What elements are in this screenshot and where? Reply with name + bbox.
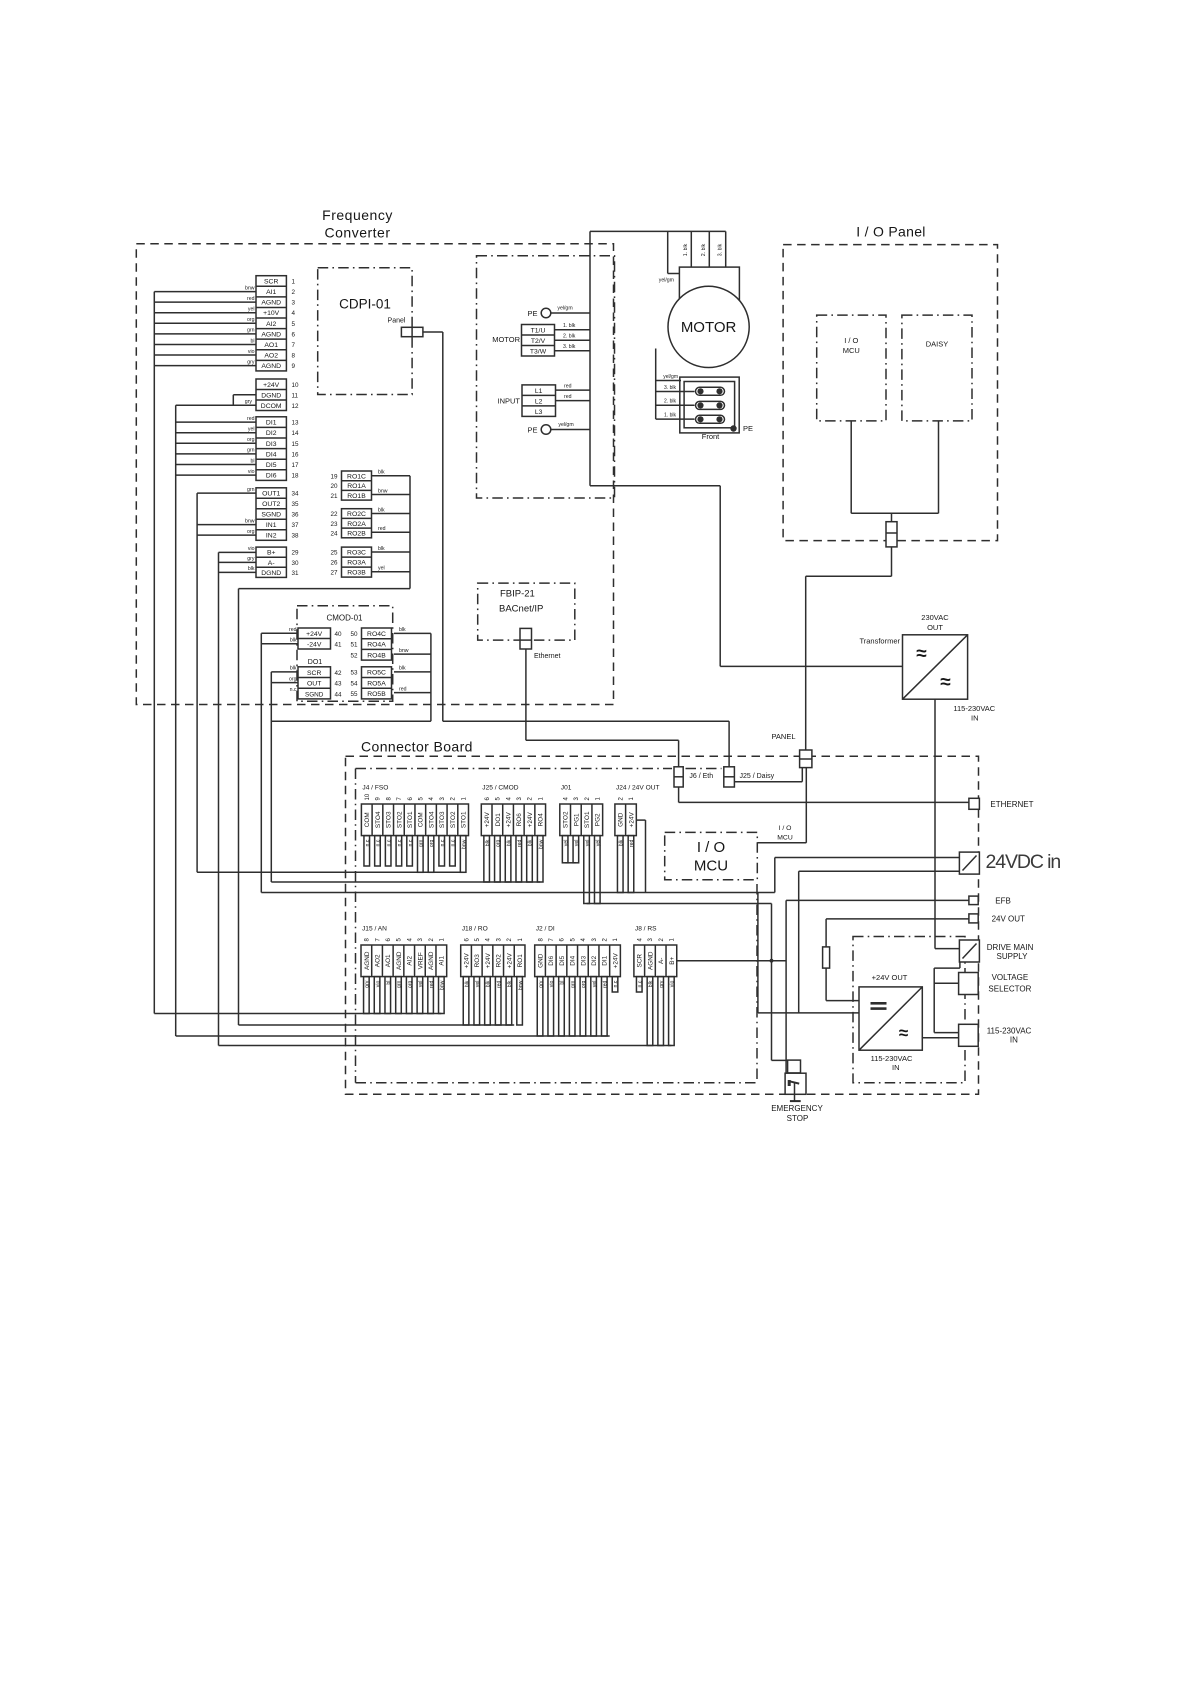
relay output block RO5 pins 53-55 (RO5C RO5A RO5B) xyxy=(350,667,391,699)
CMOD-01 DO1 label xyxy=(308,659,323,666)
svg-text:+24V: +24V xyxy=(505,812,512,828)
svg-text:MOTOR: MOTOR xyxy=(492,335,520,344)
svg-text:bnw: bnw xyxy=(245,518,255,524)
svg-text:B+: B+ xyxy=(669,957,676,965)
wire DGND-DCOM jumper and bus to J2/DI xyxy=(176,395,256,406)
svg-text:PE: PE xyxy=(527,426,537,435)
FBIP-21 BACnet/IP fieldbus adapter module xyxy=(478,583,575,640)
svg-text:12: 12 xyxy=(292,403,300,410)
svg-text:11: 11 xyxy=(292,392,299,399)
svg-text:BACnet/IP: BACnet/IP xyxy=(499,604,543,615)
svg-text:AGND: AGND xyxy=(261,331,281,338)
svg-text:SELECTOR: SELECTOR xyxy=(988,984,1031,993)
svg-text:115-230VAC: 115-230VAC xyxy=(871,1054,913,1063)
svg-text:43: 43 xyxy=(335,681,343,688)
svg-text:n.c: n.c xyxy=(290,687,297,693)
svg-text:yel/gm: yel/gm xyxy=(663,374,678,380)
svg-text:bl: bl xyxy=(250,458,254,464)
svg-text:gry: gry xyxy=(247,359,255,365)
svg-text:n.c: n.c xyxy=(376,839,382,846)
svg-text:1. blk: 1. blk xyxy=(563,323,576,329)
CMOD-01 multifunction extension module (dash-dot box) xyxy=(297,606,393,702)
wires: motor phases to cable riser xyxy=(555,323,591,351)
svg-text:MCU: MCU xyxy=(694,858,728,875)
title Frequency Converter xyxy=(322,207,393,241)
svg-text:≈: ≈ xyxy=(940,672,951,693)
ground symbol below emergency stop xyxy=(771,1101,823,1123)
fuse F1 on 24V OUT line xyxy=(823,919,969,1001)
svg-text:+24V: +24V xyxy=(484,812,491,828)
wire bus: digital inputs to J2/DI (vertical at x=176) xyxy=(176,405,256,1036)
svg-text:25: 25 xyxy=(330,550,338,557)
port DRIVE MAIN SUPPLY xyxy=(959,940,1033,962)
svg-text:n.c: n.c xyxy=(365,839,371,846)
svg-text:yel: yel xyxy=(248,307,255,313)
svg-text:OUT2: OUT2 xyxy=(262,501,280,508)
svg-text:SGND: SGND xyxy=(261,512,281,519)
svg-text:230VAC: 230VAC xyxy=(921,613,949,622)
svg-text:L1: L1 xyxy=(535,388,543,395)
wire: J6/Eth to ETHERNET port xyxy=(679,787,969,802)
svg-text:blk: blk xyxy=(399,666,406,672)
svg-text:DO1: DO1 xyxy=(308,659,323,666)
svg-text:A-: A- xyxy=(268,560,275,567)
svg-text:38: 38 xyxy=(292,533,300,540)
svg-text:GND: GND xyxy=(618,812,625,827)
svg-text:54: 54 xyxy=(350,680,358,687)
svg-text:yel: yel xyxy=(248,427,255,433)
svg-text:24V OUT: 24V OUT xyxy=(992,915,1025,924)
svg-text:20: 20 xyxy=(330,483,338,490)
svg-text:grn: grn xyxy=(419,839,425,847)
svg-text:AO1: AO1 xyxy=(385,954,392,967)
svg-text:18: 18 xyxy=(292,473,300,480)
svg-text:yel: yel xyxy=(563,840,569,847)
relay output block RO3 pins 25-27 (RO3C RO3A RO3B) xyxy=(330,547,371,577)
svg-text:RO2A: RO2A xyxy=(347,521,366,528)
motor junction box Front view with terminal slots xyxy=(680,377,753,441)
svg-text:Ethernet: Ethernet xyxy=(534,653,561,660)
terminal block X1 RS485 pins 29-31 (B+ A- DGND) xyxy=(256,547,299,577)
svg-text:DI4: DI4 xyxy=(570,955,577,965)
svg-text:yel: yel xyxy=(585,840,591,847)
svg-text:AGND: AGND xyxy=(261,363,281,370)
svg-text:27: 27 xyxy=(330,570,338,577)
svg-text:bnw: bnw xyxy=(440,980,446,990)
svg-text:COM: COM xyxy=(364,812,371,827)
wire: 24V bus to J24 pins and 24VDC in port xyxy=(261,892,775,894)
svg-text:115-230VAC: 115-230VAC xyxy=(987,1027,1032,1036)
svg-text:L3: L3 xyxy=(535,409,543,416)
svg-text:blk: blk xyxy=(648,980,654,987)
svg-text:RO3A: RO3A xyxy=(347,560,366,567)
svg-text:blk: blk xyxy=(507,980,513,987)
svg-text:OUT: OUT xyxy=(927,623,943,632)
svg-text:gry: gry xyxy=(538,980,544,988)
svg-text:DGND: DGND xyxy=(261,570,281,577)
svg-text:AGND: AGND xyxy=(428,951,435,970)
svg-text:SCR: SCR xyxy=(264,278,278,285)
svg-text:blk: blk xyxy=(506,839,512,846)
svg-text:Frequency: Frequency xyxy=(322,207,393,223)
svg-text:red: red xyxy=(517,839,523,847)
svg-text:Panel: Panel xyxy=(388,318,406,325)
svg-text:red: red xyxy=(399,686,407,692)
svg-text:IN: IN xyxy=(971,714,979,723)
wire: power supply AC input to 115-230VAC IN port xyxy=(922,1037,958,1039)
svg-text:DAISY: DAISY xyxy=(926,340,949,349)
svg-text:3. blk: 3. blk xyxy=(563,344,576,350)
connector Ethernet on FBIP-21 xyxy=(520,628,561,660)
svg-text:4: 4 xyxy=(292,310,296,317)
svg-text:DO1: DO1 xyxy=(495,813,502,827)
svg-text:DI6: DI6 xyxy=(266,473,277,480)
svg-text:115-230VAC: 115-230VAC xyxy=(953,704,995,713)
svg-text:n.c: n.c xyxy=(451,839,457,846)
svg-text:9: 9 xyxy=(292,363,296,370)
connector Panel on CDPI-01 xyxy=(388,318,423,337)
svg-text:yel: yel xyxy=(595,840,601,847)
svg-text:n.c: n.c xyxy=(408,839,414,846)
svg-text:STO4: STO4 xyxy=(428,811,435,828)
port VOLTAGE SELECTOR xyxy=(959,973,1032,995)
svg-text:22: 22 xyxy=(330,511,338,518)
svg-text:org: org xyxy=(247,317,255,323)
wire bus: CMOD +24V/-24V to J24/24V OUT (vertical at x=261) xyxy=(261,627,298,892)
connector J18/RO pins 6-1 xyxy=(461,926,525,1026)
svg-text:IN: IN xyxy=(892,1063,900,1072)
svg-text:AI2: AI2 xyxy=(266,321,276,328)
wire bus: DO1 SCR/OUT to J25/CMOD (vertical at x=271) xyxy=(271,666,298,882)
wire: drive main supply to voltage selector xyxy=(934,962,960,1033)
svg-text:+24V: +24V xyxy=(463,953,470,969)
svg-text:+24V OUT: +24V OUT xyxy=(872,973,908,982)
svg-text:I / O Panel: I / O Panel xyxy=(856,224,925,240)
wire bus: relay outputs RO1-RO3 to J18/RO xyxy=(239,470,411,1025)
svg-text:vio: vio xyxy=(670,980,676,987)
svg-text:blk: blk xyxy=(290,638,297,644)
svg-text:bl: bl xyxy=(560,981,566,985)
svg-text:RO4: RO4 xyxy=(538,813,545,827)
svg-text:T2/V: T2/V xyxy=(531,338,546,345)
wire: STO line J01 to emergency stop xyxy=(587,904,788,1061)
motor M1 (circle) xyxy=(668,286,749,367)
svg-text:vio: vio xyxy=(248,546,255,552)
svg-text:DI4: DI4 xyxy=(266,451,277,458)
svg-text:24VDC in: 24VDC in xyxy=(986,851,1061,873)
svg-text:53: 53 xyxy=(350,670,358,677)
svg-text:RO5A: RO5A xyxy=(367,680,386,687)
svg-text:J8 / RS: J8 / RS xyxy=(635,926,657,933)
wire bus: relay outputs RO4/RO5 (vertical at x=432) xyxy=(394,627,431,721)
wire: link line to J25/Daisy connector at y=721 xyxy=(271,721,729,767)
svg-text:DI2: DI2 xyxy=(266,430,277,437)
svg-text:FBIP-21: FBIP-21 xyxy=(500,589,535,600)
svg-text:J24 / 24V OUT: J24 / 24V OUT xyxy=(616,785,660,792)
svg-text:OUT1: OUT1 xyxy=(262,491,280,498)
port 24VDC in xyxy=(959,851,1060,874)
PE terminal bottom (input side) xyxy=(527,422,590,435)
svg-text:org: org xyxy=(247,437,255,443)
terminal block X1 pins 10-12 (+24V DGND DCOM) xyxy=(256,379,299,411)
svg-text:org: org xyxy=(247,529,255,535)
relay output block RO1 pins 19-21 (RO1C RO1A RO1B) xyxy=(330,471,371,500)
svg-text:org: org xyxy=(581,980,587,988)
emergency stop switch S1 xyxy=(785,1060,806,1101)
port 115-230VAC IN xyxy=(959,1024,1032,1046)
24V power supply module (dash-dot box) xyxy=(853,937,965,1083)
svg-text:16: 16 xyxy=(292,451,300,458)
svg-text:blk: blk xyxy=(486,980,492,987)
svg-text:STO2: STO2 xyxy=(450,811,457,828)
svg-text:3. blk: 3. blk xyxy=(664,385,676,391)
transformer T1 (230VAC OUT) xyxy=(859,613,995,723)
svg-text:Front: Front xyxy=(702,432,720,441)
svg-text:42: 42 xyxy=(335,670,343,677)
svg-text:blk: blk xyxy=(378,546,385,552)
svg-text:gry: gry xyxy=(247,556,255,562)
terminal block X1 analog pins 1-9 (SCR AI1 AGND +10V AI2 AGND AO1 AO2 AGND) xyxy=(256,276,296,371)
svg-text:2: 2 xyxy=(292,289,296,296)
wires: I/O panel modules to panel cable connector xyxy=(851,421,938,522)
svg-text:blk: blk xyxy=(528,839,534,846)
connector J2/DI pins 8-1 xyxy=(535,926,621,1037)
svg-text:RO1: RO1 xyxy=(517,954,524,968)
svg-text:SUPPLY: SUPPLY xyxy=(997,952,1029,961)
svg-text:grn: grn xyxy=(247,448,255,454)
svg-text:STO1: STO1 xyxy=(461,811,468,828)
svg-text:RO3: RO3 xyxy=(474,954,481,968)
svg-text:DI6: DI6 xyxy=(548,955,555,965)
svg-text:SGND: SGND xyxy=(305,691,324,698)
svg-text:AI1: AI1 xyxy=(266,289,276,296)
svg-text:bnw: bnw xyxy=(461,839,467,849)
connector J8/RS pins 4-1 xyxy=(634,926,677,1046)
svg-text:J25 / CMOD: J25 / CMOD xyxy=(482,785,519,792)
svg-text:+24V: +24V xyxy=(612,953,619,969)
svg-text:gry: gry xyxy=(245,399,253,405)
wire: CDPI-01 Panel to connector board xyxy=(423,332,443,721)
svg-text:yel/gm: yel/gm xyxy=(557,306,572,312)
wire: PANEL connector to I/O MCU xyxy=(757,768,806,843)
wire: bus to J18/RO pins xyxy=(239,1024,515,1026)
svg-text:PANEL: PANEL xyxy=(771,732,795,741)
svg-text:RO3B: RO3B xyxy=(347,570,366,577)
CMOD-01 terminal block +24V/-24V pins 40-41 xyxy=(298,628,342,649)
svg-text:COM: COM xyxy=(418,812,425,827)
wire colour labels for analog terminal wires xyxy=(245,285,255,365)
svg-text:50: 50 xyxy=(350,631,358,638)
motor terminal box xyxy=(679,267,739,301)
svg-text:Converter: Converter xyxy=(325,225,391,241)
svg-text:bl: bl xyxy=(250,338,254,344)
svg-text:23: 23 xyxy=(330,521,338,528)
connector on I/O panel cable xyxy=(886,522,897,547)
svg-text:DI2: DI2 xyxy=(591,955,598,965)
svg-text:J01: J01 xyxy=(561,785,572,792)
wire: J25/Daisy to PANEL connector xyxy=(734,768,802,782)
svg-text:-24V: -24V xyxy=(307,642,322,649)
svg-text:GND: GND xyxy=(537,953,544,968)
svg-text:+24V: +24V xyxy=(628,812,635,828)
title I/O Panel xyxy=(856,224,925,240)
connector J24/24V OUT pins 2-1 xyxy=(615,785,660,893)
svg-text:MCU: MCU xyxy=(777,835,793,842)
svg-text:grn: grn xyxy=(247,328,255,334)
svg-text:DGND: DGND xyxy=(261,392,281,399)
svg-text:STO2: STO2 xyxy=(396,811,403,828)
svg-text:36: 36 xyxy=(292,512,300,519)
svg-text:yel: yel xyxy=(378,566,385,572)
svg-text:51: 51 xyxy=(350,642,358,649)
svg-text:MCU: MCU xyxy=(843,346,860,355)
svg-text:T1/U: T1/U xyxy=(531,328,546,335)
svg-text:red: red xyxy=(247,416,255,422)
svg-text:RO1C: RO1C xyxy=(347,473,366,480)
terminal block L1 L2 L3 (mains input) xyxy=(498,385,556,417)
svg-text:EMERGENCY: EMERGENCY xyxy=(771,1104,823,1113)
svg-text:I / O: I / O xyxy=(779,825,792,832)
svg-text:13: 13 xyxy=(292,420,300,427)
svg-text:2. blk: 2. blk xyxy=(563,334,576,340)
svg-text:grn: grn xyxy=(247,487,255,493)
svg-text:blk: blk xyxy=(485,839,491,846)
wires: mains input to cable riser xyxy=(556,384,591,401)
svg-text:CDPI-01: CDPI-01 xyxy=(339,297,391,312)
svg-text:ETHERNET: ETHERNET xyxy=(990,800,1033,809)
svg-text:AGND: AGND xyxy=(364,951,371,970)
svg-text:blk: blk xyxy=(378,470,385,476)
svg-text:17: 17 xyxy=(292,462,300,469)
I/O panel enclosure (dashed box) xyxy=(783,245,997,541)
connector board enclosure (dashed box) xyxy=(346,756,979,1094)
svg-text:37: 37 xyxy=(292,522,300,529)
svg-text:10: 10 xyxy=(365,793,371,800)
svg-text:+24V: +24V xyxy=(306,631,323,638)
svg-text:PE: PE xyxy=(527,309,537,318)
svg-text:yel: yel xyxy=(592,981,598,988)
svg-text:red: red xyxy=(564,394,572,400)
svg-text:AI2: AI2 xyxy=(407,956,414,966)
svg-text:vio: vio xyxy=(375,980,381,987)
CMOD-01 terminal block DO1 SCR/OUT/SGND pins 42-44 xyxy=(298,667,342,699)
connector J25/Daisy xyxy=(724,767,775,787)
port 24V OUT xyxy=(969,914,1025,924)
svg-text:IN: IN xyxy=(1010,1036,1018,1045)
svg-text:21: 21 xyxy=(330,493,338,500)
svg-text:AO2: AO2 xyxy=(374,954,381,967)
svg-text:n.c: n.c xyxy=(637,980,643,987)
svg-text:30: 30 xyxy=(292,560,300,567)
svg-text:Transformer: Transformer xyxy=(859,637,900,646)
svg-text:SCR: SCR xyxy=(637,954,644,968)
svg-text:≈: ≈ xyxy=(899,1024,908,1043)
svg-text:vio: vio xyxy=(248,349,255,355)
svg-text:VOLTAGE: VOLTAGE xyxy=(992,973,1029,982)
svg-text:blk: blk xyxy=(464,980,470,987)
DAISY module in I/O panel (dash-dot box) xyxy=(902,315,972,421)
svg-text:AI1: AI1 xyxy=(439,956,446,966)
svg-text:EFB: EFB xyxy=(995,896,1011,905)
svg-text:10: 10 xyxy=(292,382,300,389)
svg-text:STO4: STO4 xyxy=(375,811,382,828)
svg-text:org: org xyxy=(289,676,297,682)
svg-text:J25 / Daisy: J25 / Daisy xyxy=(740,773,775,780)
svg-text:3. blk: 3. blk xyxy=(718,243,724,256)
svg-text:40: 40 xyxy=(335,631,343,638)
connector J25/CMOD pins 6-1 xyxy=(481,785,545,883)
svg-text:bnw: bnw xyxy=(538,839,544,849)
svg-text:red: red xyxy=(564,384,572,390)
svg-text:red: red xyxy=(629,839,635,847)
svg-text:n.c: n.c xyxy=(440,839,446,846)
svg-text:n.c: n.c xyxy=(613,980,619,987)
svg-text:IN2: IN2 xyxy=(266,533,277,540)
svg-text:2. blk: 2. blk xyxy=(664,399,676,405)
svg-text:T3/W: T3/W xyxy=(530,349,547,356)
svg-text:I / O: I / O xyxy=(697,839,725,856)
wire: 24VDC in lower feed to power supply xyxy=(799,871,960,1013)
wires: motor terminal drops with labels 1.blk 2.blk 3.blk xyxy=(659,231,726,283)
svg-text:5: 5 xyxy=(292,321,296,328)
svg-text:PE: PE xyxy=(743,424,753,433)
svg-text:STO2: STO2 xyxy=(563,811,570,828)
connector PANEL xyxy=(771,732,811,768)
svg-text:STO3: STO3 xyxy=(386,811,393,828)
wire: I/O panel cable down to PANEL connector xyxy=(806,547,892,750)
terminal block X1 pins 34-38 (OUT1 OUT2 SGND IN1 IN2) xyxy=(256,488,299,541)
svg-text:31: 31 xyxy=(292,570,300,577)
svg-text:gry: gry xyxy=(659,980,665,988)
svg-text:bnw: bnw xyxy=(378,488,388,494)
svg-text:AO2: AO2 xyxy=(264,353,278,360)
svg-text:1. blk: 1. blk xyxy=(664,413,676,419)
svg-text:34: 34 xyxy=(292,491,300,498)
svg-text:J15 / AN: J15 / AN xyxy=(362,926,387,933)
svg-text:24: 24 xyxy=(330,530,338,537)
svg-text:bnw: bnw xyxy=(518,980,524,990)
relay output block RO2 pins 22-24 (RO2C RO2A RO2B) xyxy=(330,509,371,538)
wire: bus to J2/DI pins xyxy=(176,1035,610,1037)
svg-text:blk: blk xyxy=(618,839,624,846)
svg-text:J18 / RO: J18 / RO xyxy=(462,926,488,933)
svg-text:bl: bl xyxy=(386,981,392,985)
svg-text:RO4C: RO4C xyxy=(367,631,386,638)
svg-text:blk: blk xyxy=(248,566,255,572)
svg-text:DI1: DI1 xyxy=(266,420,277,427)
svg-text:red: red xyxy=(289,627,297,633)
svg-text:I / O: I / O xyxy=(844,336,858,345)
svg-text:6: 6 xyxy=(292,331,296,338)
svg-text:DI1: DI1 xyxy=(602,955,609,965)
svg-text:org: org xyxy=(429,839,435,847)
I/O MCU module in I/O panel (dash-dot box) xyxy=(817,315,886,421)
svg-text:7: 7 xyxy=(292,342,296,349)
relay output block RO4 pins 50-52 (RO4C RO4A RO4B) xyxy=(350,628,391,660)
PE terminal top (motor side) xyxy=(527,306,590,319)
svg-text:35: 35 xyxy=(292,501,300,508)
wire: bus to J4/FSO pins xyxy=(197,871,463,873)
svg-text:DCOM: DCOM xyxy=(261,403,282,410)
wire: bus to J8/RS pins xyxy=(219,1045,672,1047)
svg-text:red: red xyxy=(429,980,435,988)
svg-text:1: 1 xyxy=(292,278,296,285)
svg-text:bnw: bnw xyxy=(399,648,409,654)
svg-text:14: 14 xyxy=(292,430,300,437)
svg-text:DI5: DI5 xyxy=(266,462,277,469)
connector J01 pins 4-1 (STO) xyxy=(560,785,603,904)
svg-text:red: red xyxy=(378,526,386,532)
